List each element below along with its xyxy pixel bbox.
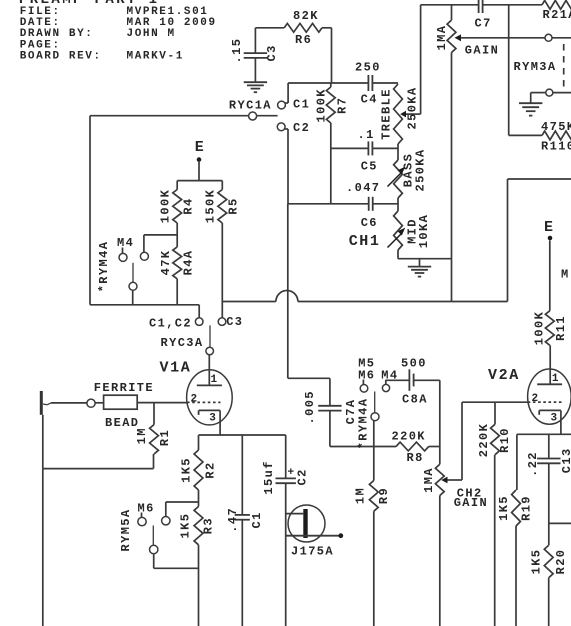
svg-text:1K5: 1K5	[179, 513, 193, 539]
svg-text:15uf: 15uf	[262, 460, 276, 494]
svg-text:1MA: 1MA	[435, 25, 449, 51]
svg-text:RYC3A: RYC3A	[161, 336, 204, 350]
svg-text:47K: 47K	[159, 250, 173, 276]
svg-text:RYC1A: RYC1A	[229, 98, 272, 112]
svg-text:.047: .047	[346, 181, 380, 195]
svg-text:M: M	[561, 267, 570, 281]
svg-text:.005: .005	[303, 390, 317, 424]
svg-text:R4A: R4A	[182, 250, 196, 276]
svg-text:R5: R5	[226, 197, 240, 214]
svg-text:R21A: R21A	[543, 8, 571, 22]
svg-text:100K: 100K	[533, 311, 547, 345]
svg-text:RYM5A: RYM5A	[119, 508, 133, 551]
svg-text:M4: M4	[117, 236, 134, 250]
svg-text:1M: 1M	[135, 427, 149, 444]
svg-text:C1: C1	[250, 511, 264, 528]
svg-text:M6: M6	[138, 502, 155, 516]
svg-text:2: 2	[532, 393, 539, 405]
svg-text:R9: R9	[377, 487, 391, 504]
svg-text:150K: 150K	[203, 189, 217, 223]
svg-text:C13: C13	[560, 447, 571, 473]
svg-text:R2: R2	[203, 461, 217, 478]
svg-text:1K5: 1K5	[180, 457, 194, 483]
svg-text:500: 500	[401, 357, 427, 371]
svg-text:1K5: 1K5	[497, 495, 511, 521]
svg-text:R19: R19	[520, 495, 534, 521]
svg-text:C8A: C8A	[402, 392, 428, 406]
svg-text:V2A: V2A	[488, 367, 520, 384]
svg-text:3: 3	[209, 413, 216, 425]
svg-text:*RYM4A: *RYM4A	[356, 398, 370, 450]
svg-text:R7: R7	[336, 97, 350, 114]
svg-text:C2: C2	[295, 468, 309, 485]
svg-text:M6: M6	[358, 369, 375, 383]
svg-text:10KA: 10KA	[417, 214, 431, 248]
svg-text:BOARD REV:: BOARD REV:	[20, 51, 102, 63]
svg-text:R110: R110	[541, 140, 571, 154]
svg-text:250KA: 250KA	[414, 148, 428, 191]
svg-text:GAIN: GAIN	[465, 43, 499, 57]
svg-text:C4: C4	[361, 93, 378, 107]
svg-text:.47: .47	[226, 507, 240, 533]
svg-text:100K: 100K	[158, 189, 172, 223]
svg-text:220K: 220K	[392, 430, 426, 444]
svg-text:RYM3A: RYM3A	[514, 60, 557, 74]
svg-text:FERRITE: FERRITE	[94, 381, 154, 395]
svg-text:82K: 82K	[293, 9, 319, 23]
svg-text:R4: R4	[182, 197, 196, 214]
svg-text:R8: R8	[407, 451, 424, 465]
svg-text:475K: 475K	[541, 120, 571, 134]
svg-text:.15: .15	[230, 38, 244, 64]
svg-text:MARKV-1: MARKV-1	[127, 51, 184, 63]
svg-text:C3: C3	[265, 44, 279, 61]
svg-text:R20: R20	[554, 549, 568, 575]
svg-text:1K5: 1K5	[530, 549, 544, 575]
svg-text:TREBLE: TREBLE	[380, 88, 394, 140]
svg-text:+: +	[288, 467, 295, 479]
svg-text:C2: C2	[293, 121, 310, 135]
svg-text:CH1: CH1	[349, 233, 381, 250]
svg-text:100K: 100K	[314, 88, 328, 122]
svg-text:C1,C2: C1,C2	[149, 317, 192, 331]
svg-text:3: 3	[551, 413, 558, 425]
svg-text:J175A: J175A	[291, 545, 334, 559]
svg-text:C1: C1	[293, 98, 310, 112]
svg-text:E: E	[195, 139, 206, 156]
svg-text:PAGE:: PAGE:	[20, 39, 61, 51]
svg-text:R6: R6	[295, 33, 312, 47]
svg-text:*RYM4A: *RYM4A	[97, 241, 111, 293]
svg-text:E: E	[544, 219, 555, 236]
svg-text:2: 2	[191, 393, 198, 405]
svg-text:C3: C3	[226, 315, 243, 329]
svg-text:1M: 1M	[354, 487, 368, 504]
svg-text:JOHN M: JOHN M	[127, 28, 176, 40]
svg-text:C6: C6	[361, 216, 378, 230]
svg-text:V1A: V1A	[160, 359, 192, 376]
svg-text:.22: .22	[526, 451, 540, 477]
svg-text:R3: R3	[201, 517, 215, 534]
svg-text:250: 250	[355, 61, 381, 75]
svg-text:.1: .1	[358, 128, 375, 142]
svg-text:R11: R11	[554, 315, 568, 341]
svg-text:R10: R10	[498, 427, 512, 453]
svg-text:220K: 220K	[477, 423, 491, 457]
svg-text:GAIN: GAIN	[454, 496, 488, 510]
svg-text:250KA: 250KA	[406, 86, 420, 129]
svg-text:C7: C7	[475, 16, 492, 30]
svg-text:1: 1	[552, 373, 559, 385]
svg-text:1MA: 1MA	[422, 467, 436, 493]
svg-text:R1: R1	[158, 429, 172, 446]
svg-text:C5: C5	[361, 160, 378, 174]
svg-text:1: 1	[211, 374, 218, 386]
